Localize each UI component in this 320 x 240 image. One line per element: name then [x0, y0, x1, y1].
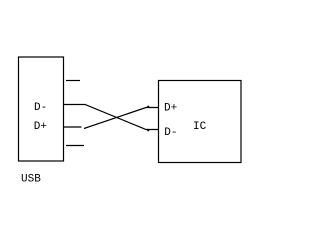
svg-text:USB: USB [21, 174, 41, 186]
svg-text:D-: D- [34, 102, 47, 114]
svg-text:D+: D+ [164, 102, 177, 114]
svg-text:D-: D- [164, 127, 177, 139]
svg-text:IC: IC [193, 121, 207, 133]
svg-text:D+: D+ [34, 121, 47, 133]
